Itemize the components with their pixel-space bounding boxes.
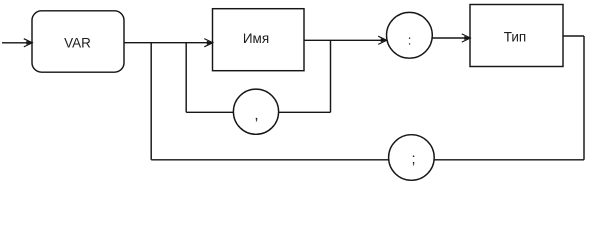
label VAR (64, 35, 91, 50)
wire VAR to Имя (124, 42, 212, 44)
entry wire (2, 42, 31, 44)
label Тип (504, 29, 527, 44)
wire colon to Тип (432, 37, 468, 39)
bottom bypass wire left segment (151, 159, 389, 161)
node Имя (213, 9, 305, 71)
terminal semicolon circle (389, 135, 435, 181)
arrowhead into Имя (204, 39, 213, 47)
node Тип (470, 5, 563, 67)
branch wire down to semicolon bypass (150, 43, 152, 160)
label semicolon (411, 152, 415, 168)
terminal VAR (32, 11, 124, 72)
label Имя (243, 31, 269, 46)
entry arrowhead (24, 39, 33, 47)
terminal comma circle (233, 89, 278, 134)
terminal colon circle (387, 12, 433, 58)
svg-text:;: ; (411, 152, 415, 168)
wire down right side (583, 36, 585, 160)
branch wire down to comma loop (185, 43, 187, 113)
wire Тип exit right (563, 35, 584, 37)
svg-text:Имя: Имя (243, 31, 269, 46)
svg-text:Тип: Тип (504, 29, 527, 44)
svg-text::: : (408, 32, 412, 47)
arrowhead into Тип (462, 34, 471, 42)
label colon (408, 32, 412, 47)
wire Имя to colon circle (304, 39, 385, 41)
comma loop wire right (279, 111, 331, 113)
svg-text:,: , (254, 107, 258, 124)
loop return wire down after Имя (330, 40, 332, 112)
arrowhead into colon circle (378, 36, 387, 44)
comma loop wire left (186, 111, 233, 113)
svg-text:VAR: VAR (64, 35, 91, 50)
label comma (254, 107, 258, 124)
bottom bypass wire right segment (434, 159, 584, 161)
